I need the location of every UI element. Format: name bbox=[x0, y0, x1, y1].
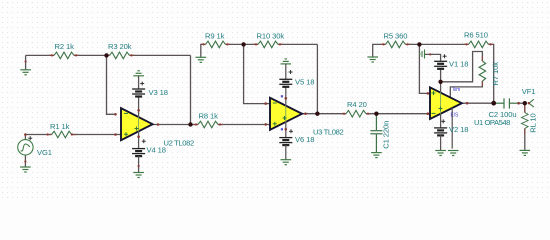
svg-text:R7 10k: R7 10k bbox=[491, 62, 500, 86]
svg-text:RL 10: RL 10 bbox=[529, 113, 538, 132]
wire: U1 supply column through symbol bbox=[440, 82, 442, 93]
resistor R2 bbox=[54, 52, 74, 59]
capacitor C1 bbox=[370, 114, 382, 153]
wire: V1 ground lead bbox=[425, 54, 441, 60]
svg-text:V6 18: V6 18 bbox=[295, 135, 314, 144]
op-amp U3 bbox=[270, 98, 302, 130]
svg-text:U3 TL082: U3 TL082 bbox=[313, 128, 344, 137]
wire: U3 output to R4 bbox=[302, 113, 346, 115]
wire: node B down to U3 inverting input bbox=[244, 44, 270, 103]
svg-text:R6 510: R6 510 bbox=[464, 30, 488, 39]
resistor R5 bbox=[386, 41, 406, 48]
svg-text:R9 1k: R9 1k bbox=[205, 31, 225, 40]
ground under VG1 bbox=[20, 167, 31, 172]
svg-text:R2 1k: R2 1k bbox=[55, 42, 75, 51]
wire: R2 to R3 through node A bbox=[74, 54, 110, 56]
resistor R4 bbox=[346, 110, 366, 117]
wire: junction D to R7 top bbox=[441, 52, 483, 82]
svg-text:V1 18: V1 18 bbox=[449, 60, 468, 69]
wire: U2 output to R8 bbox=[153, 124, 198, 126]
wire: U1 output to C2 bbox=[462, 102, 495, 104]
wire: VG1 stem bbox=[24, 135, 26, 140]
wire: RL bottom to ground bbox=[524, 129, 526, 150]
battery V4 bbox=[142, 139, 146, 143]
wire: VF1 node down to RL bbox=[524, 103, 526, 112]
ground under V6 bbox=[281, 160, 292, 165]
ground G1 top-left bbox=[20, 70, 31, 75]
resistor leads bbox=[47, 44, 525, 134]
wire: R5 ground stem and rail start bbox=[373, 44, 386, 56]
ground under C1 bbox=[371, 153, 382, 158]
resistor R9 bbox=[206, 41, 226, 48]
ground under RL bbox=[520, 150, 531, 155]
wire: R7 bottom to Ilim pin bbox=[450, 81, 482, 98]
svg-text:V5 18: V5 18 bbox=[295, 77, 314, 86]
resistor R3 bbox=[110, 52, 130, 59]
ground under E/S bbox=[448, 151, 459, 156]
wire: R9 to R10 through node B bbox=[226, 43, 259, 45]
wire: VG1 ground stem bbox=[24, 155, 26, 167]
wire: C2 to VF1 node bbox=[519, 102, 525, 104]
ground under R5 bbox=[367, 57, 378, 62]
battery V3 bbox=[138, 76, 140, 89]
resistor R7 vertical bbox=[479, 61, 486, 81]
battery V1 bbox=[443, 54, 447, 58]
battery V2 bbox=[441, 119, 445, 123]
ground under V2 bbox=[435, 151, 446, 156]
wire: feedback drop to U2 output bbox=[190, 55, 192, 124]
svg-text:E/S: E/S bbox=[451, 113, 460, 119]
svg-text:Ilim: Ilim bbox=[453, 87, 460, 93]
wire: ground stem G1 bbox=[25, 55, 27, 69]
wire: node A down to U2 inverting input bbox=[107, 55, 116, 114]
wire: R10 right to feedback corner bbox=[278, 43, 317, 45]
svg-text:R1 1k: R1 1k bbox=[50, 122, 70, 131]
svg-text:V2 18: V2 18 bbox=[449, 125, 468, 134]
wire: left rail top from ground to R2 bbox=[26, 54, 54, 56]
op-amp U2 bbox=[121, 108, 153, 140]
svg-text:R4 20: R4 20 bbox=[347, 100, 367, 109]
svg-text:VG1: VG1 bbox=[37, 148, 52, 157]
wire: U2 supply column through symbol bbox=[138, 97, 140, 117]
voltage pin VF1 bbox=[529, 99, 534, 107]
battery V5 bbox=[285, 64, 287, 79]
wire: node C down to U1 top input bbox=[419, 44, 430, 93]
svg-text:V4 18: V4 18 bbox=[147, 145, 166, 154]
resistor R8 bbox=[198, 121, 218, 128]
ground above V5 (inverted) bbox=[281, 59, 292, 64]
wire: E/S pin stub bbox=[451, 108, 453, 149]
battery V6 bbox=[289, 129, 293, 133]
svg-text:R3 20k: R3 20k bbox=[108, 42, 132, 51]
svg-text:VF1: VF1 bbox=[522, 87, 536, 96]
svg-text:V3 18: V3 18 bbox=[149, 88, 168, 97]
capacitor C2 bbox=[495, 98, 519, 108]
svg-text:C2 100u: C2 100u bbox=[489, 110, 517, 119]
op-amp U1 bbox=[430, 87, 462, 119]
svg-text:U2 TL082: U2 TL082 bbox=[164, 139, 195, 148]
wire: U3 supply column through symbol bbox=[285, 87, 287, 106]
wire: R4 to U1 inverting input bbox=[366, 113, 430, 115]
resistor R6 bbox=[469, 41, 489, 48]
wire: R3 right to feedback corner bbox=[130, 54, 191, 56]
wire: R6 to corner and down to U1 output bbox=[489, 44, 494, 103]
ground under V4 bbox=[133, 173, 144, 178]
wire: U3 feedback drop bbox=[316, 44, 318, 113]
wire: R1 to U2 non-inverting input bbox=[72, 134, 121, 136]
svg-text:R8 1k: R8 1k bbox=[199, 111, 219, 120]
ground above V3 (inverted) bbox=[133, 71, 144, 76]
wire: R9 ground stem and rail start bbox=[201, 44, 206, 57]
resistor R10 bbox=[258, 41, 278, 48]
svg-text:R10 30k: R10 30k bbox=[257, 31, 285, 40]
wire: R8 to U3 non-inverting input bbox=[218, 124, 270, 126]
wire: VG1 to R1 bbox=[25, 134, 51, 136]
pin dots bbox=[24, 43, 530, 167]
resistor RL vertical bbox=[522, 113, 529, 129]
svg-text:R5 360: R5 360 bbox=[384, 31, 408, 40]
wire: R5 to R6 through node C bbox=[406, 43, 469, 45]
svg-text:U1 OPA548: U1 OPA548 bbox=[474, 118, 510, 127]
wire: V1 bottom to junction D bbox=[440, 69, 442, 82]
ground beside V1 (rotated) bbox=[420, 50, 425, 59]
ground under R9 bbox=[196, 57, 207, 62]
svg-text:C1 220n: C1 220n bbox=[382, 121, 391, 149]
resistor R1 bbox=[52, 131, 72, 138]
voltage generator VG1 bbox=[18, 140, 33, 155]
